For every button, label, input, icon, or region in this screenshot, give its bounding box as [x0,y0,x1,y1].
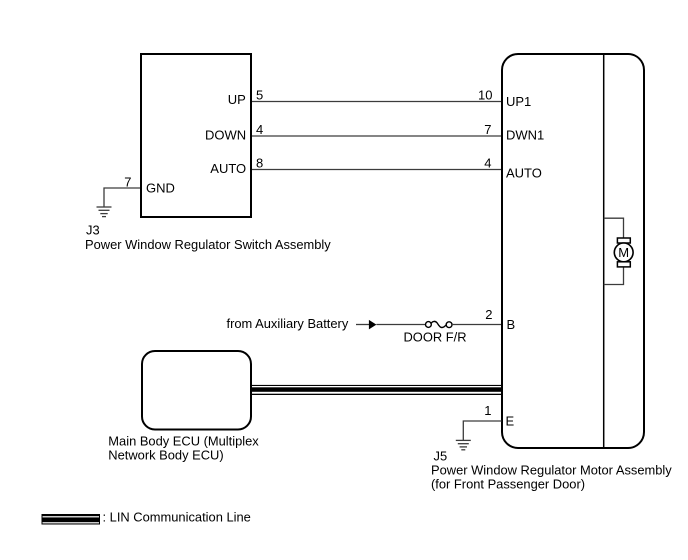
circuit breaker DOOR F/R [426,321,453,327]
svg-text:1: 1 [484,403,491,418]
svg-text:Network Body ECU): Network Body ECU) [108,448,223,463]
svg-text:4: 4 [256,122,263,137]
motor M brush (top) [617,238,630,243]
svg-text:AUTO: AUTO [506,166,542,181]
wire AUTO (J3 pin 8 to J5 pin 4) [252,169,501,171]
ECU box (Main Body ECU) [142,351,251,430]
svg-text:GND: GND [146,181,175,196]
svg-text:: LIN Communication Line: : LIN Communication Line [103,510,251,525]
svg-text:DOWN: DOWN [205,128,246,143]
wire circuit breaker to pin B [452,324,501,326]
svg-text:Main Body ECU (Multiplex: Main Body ECU (Multiplex [108,434,259,449]
svg-text:B: B [507,317,516,332]
svg-text:J3: J3 [86,223,100,238]
svg-text:5: 5 [256,88,263,103]
svg-text:J5: J5 [434,449,448,464]
motor M brush (bottom) [617,262,630,267]
svg-text:from Auxiliary Battery: from Auxiliary Battery [227,316,349,331]
svg-text:DWN1: DWN1 [506,128,544,143]
motor branch wire (top) [604,218,624,239]
wire pin E to ground [463,421,501,440]
ground symbol (J3 pin 7) [97,207,112,217]
svg-text:DOOR F/R: DOOR F/R [404,330,467,345]
ground symbol (J5 pin 1) [456,440,471,449]
svg-text:AUTO: AUTO [210,161,246,176]
svg-text:Power Window Regulator Motor A: Power Window Regulator Motor Assembly [431,463,672,478]
LIN communication line (thick bus, ECU to J5) [251,385,502,395]
legend: LIN communication line sample [42,514,101,525]
internal partition line of J5 [603,54,605,447]
svg-text:7: 7 [484,122,491,137]
svg-text:7: 7 [124,175,131,190]
svg-text:2: 2 [485,307,492,322]
svg-text:E: E [506,414,515,429]
svg-text:UP: UP [228,92,246,107]
svg-text:8: 8 [256,156,263,171]
svg-text:4: 4 [484,156,491,171]
wire pin B from auxiliary battery [356,324,369,326]
svg-text:(for Front Passenger Door): (for Front Passenger Door) [431,477,585,492]
wire DOWN (J3 pin 4 to J5 pin 7) [252,135,501,137]
svg-text:Power Window Regulator Switch: Power Window Regulator Switch Assembly [85,237,331,252]
wire arrow to circuit breaker [376,324,425,326]
connector box J3 (Power Window Regulator Switch Assembly) [141,54,251,217]
motor M circle [614,243,633,262]
motor branch wire (bottom) [604,266,624,285]
svg-text:10: 10 [478,88,492,103]
arrow (power feed direction) [369,320,377,330]
svg-text:UP1: UP1 [506,94,531,109]
connector box J5 (Power Window Regulator Motor Assembly) [502,54,644,448]
wire UP (J3 pin 5 to J5 pin 10) [252,101,501,103]
wire GND (J3 pin 7 to ground) [104,188,140,207]
svg-text:M: M [618,245,629,260]
